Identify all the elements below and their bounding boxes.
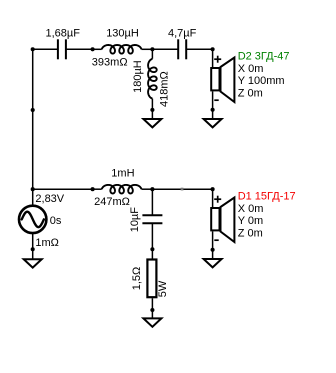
svg-text:180µH: 180µH	[132, 60, 144, 93]
svg-text:393mΩ: 393mΩ	[92, 56, 128, 68]
svg-text:D1 15ГД-17: D1 15ГД-17	[238, 190, 296, 202]
svg-text:1mΩ: 1mΩ	[35, 237, 59, 249]
svg-text:10µF: 10µF	[129, 207, 141, 233]
svg-text:5W: 5W	[157, 280, 169, 297]
svg-text:1,68µF: 1,68µF	[46, 28, 81, 40]
svg-text:X 0m: X 0m	[238, 63, 264, 75]
svg-text:247mΩ: 247mΩ	[94, 196, 130, 208]
svg-text:Y 100mm: Y 100mm	[238, 75, 285, 87]
svg-text:4,7µF: 4,7µF	[168, 28, 197, 40]
svg-text:2,83V: 2,83V	[35, 193, 64, 205]
svg-text:Z 0m: Z 0m	[238, 228, 263, 240]
svg-text:1mH: 1mH	[111, 168, 134, 180]
svg-text:D2 3ГД-47: D2 3ГД-47	[238, 50, 290, 62]
svg-text:1,5Ω: 1,5Ω	[131, 267, 143, 291]
svg-text:X 0m: X 0m	[238, 203, 264, 215]
svg-text:418mΩ: 418mΩ	[159, 71, 171, 107]
svg-text:Z 0m: Z 0m	[238, 88, 263, 100]
svg-text:0s: 0s	[50, 215, 62, 227]
svg-text:Y 0m: Y 0m	[238, 215, 263, 227]
svg-text:130µH: 130µH	[106, 28, 139, 40]
